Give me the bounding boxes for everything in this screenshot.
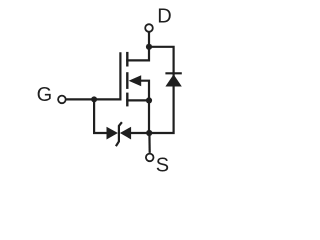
svg-text:D: D bbox=[157, 5, 171, 27]
wire: gate node down and right to ESD zener anode bbox=[94, 99, 107, 133]
terminal circle G bbox=[58, 96, 66, 104]
svg-text:S: S bbox=[156, 154, 169, 176]
wire: MOSFET source stub bbox=[126, 99, 149, 101]
junction dot: gate node bbox=[91, 96, 97, 102]
MOSFET channel: source segment bbox=[126, 93, 128, 107]
junction dot: drain node bbox=[146, 44, 152, 50]
svg-text:G: G bbox=[37, 84, 53, 106]
ESD zener right diode (points left) bbox=[120, 127, 131, 140]
wire: body connection to source node bbox=[140, 81, 149, 133]
body diode anode triangle (points up) bbox=[165, 74, 181, 86]
ESD zener center bar with hooks bbox=[116, 122, 122, 146]
MOSFET channel: body segment bbox=[126, 72, 128, 89]
wire: D terminal to drain corner, into MOSFET drain stub bbox=[126, 32, 149, 60]
wire: source node down to S terminal bbox=[148, 133, 151, 153]
MOSFET channel: drain segment bbox=[126, 52, 128, 67]
terminal circle S bbox=[146, 154, 154, 162]
MOSFET body arrow (points to channel) bbox=[129, 75, 142, 86]
ESD zener left diode (points right) bbox=[107, 127, 118, 140]
terminal circle D bbox=[145, 24, 153, 32]
wire: gate terminal lead and MOSFET gate electrode bar bbox=[66, 52, 120, 99]
wire: ESD zener to source node bbox=[130, 132, 149, 134]
junction dot: source stub node bbox=[146, 97, 152, 103]
junction dot: source bottom node bbox=[146, 130, 152, 136]
body diode cathode bar bbox=[165, 72, 181, 74]
wire: drain node right, down right branch, to source node bbox=[149, 47, 174, 133]
